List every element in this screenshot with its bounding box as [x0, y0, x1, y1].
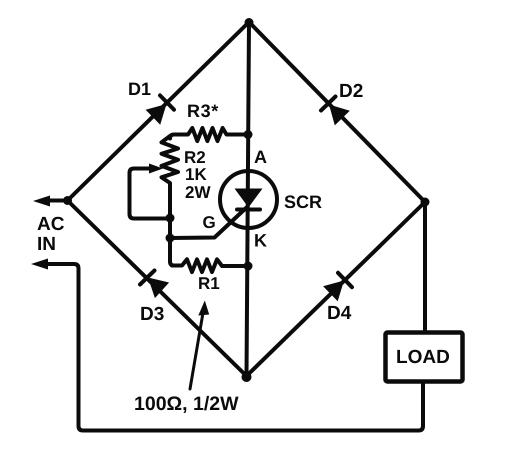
svg-text:R1: R1: [198, 274, 220, 293]
svg-text:D4: D4: [327, 303, 352, 324]
svg-text:1K: 1K: [185, 165, 207, 184]
svg-text:D3: D3: [140, 304, 164, 325]
svg-text:AC: AC: [37, 214, 65, 235]
svg-text:100Ω, 1/2W: 100Ω, 1/2W: [134, 393, 239, 415]
svg-text:R3*: R3*: [187, 101, 219, 121]
svg-text:G: G: [203, 213, 216, 232]
svg-text:D1: D1: [128, 79, 151, 99]
svg-text:D2: D2: [339, 81, 363, 102]
svg-text:SCR: SCR: [284, 192, 322, 212]
svg-text:K: K: [254, 231, 267, 251]
svg-text:2W: 2W: [185, 183, 211, 202]
svg-text:LOAD: LOAD: [396, 347, 450, 368]
svg-text:A: A: [254, 147, 267, 167]
svg-text:IN: IN: [37, 234, 56, 255]
